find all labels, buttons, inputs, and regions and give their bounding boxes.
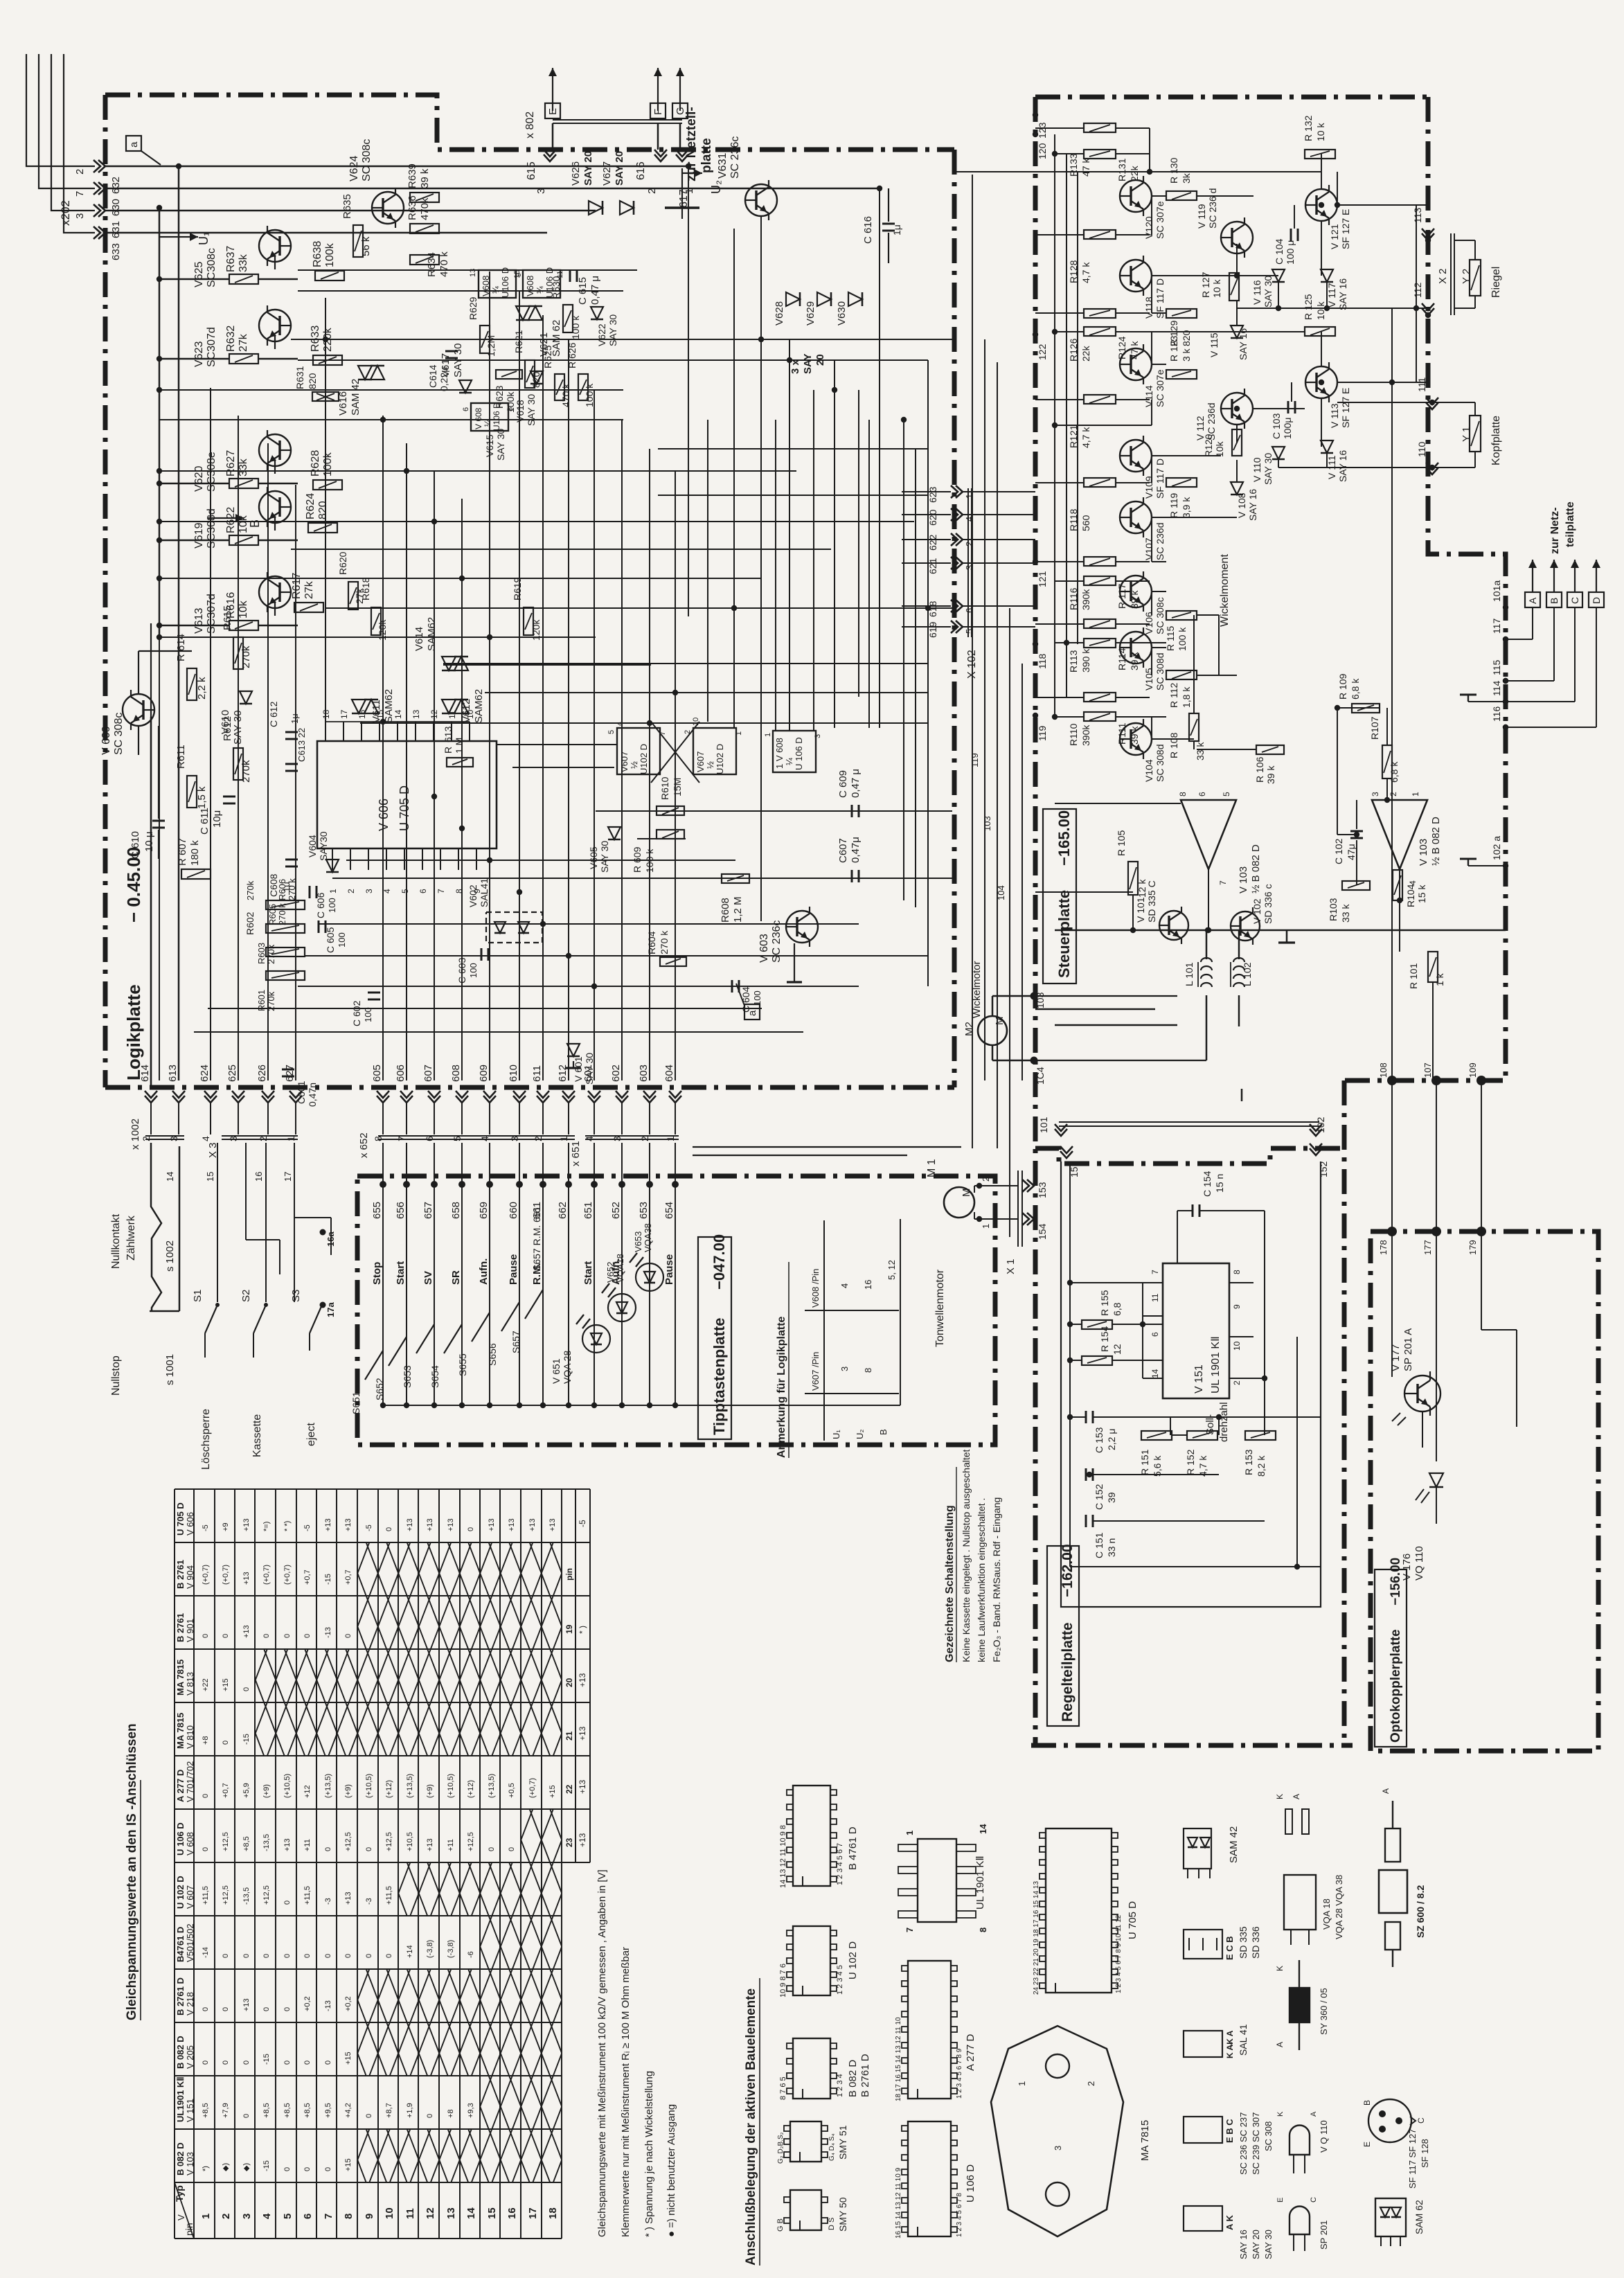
svg-text:1 k: 1 k xyxy=(1434,972,1445,986)
svg-text:2: 2 xyxy=(74,169,86,175)
transistor V105 xyxy=(1120,632,1152,664)
svg-text:3,9 k: 3,9 k xyxy=(1181,497,1192,518)
svg-text:3: 3 xyxy=(1371,792,1380,797)
svg-text:2: 2 xyxy=(981,1177,991,1182)
connector pin 620 xyxy=(956,508,963,521)
svg-text:613: 613 xyxy=(443,726,454,742)
svg-text:3k: 3k xyxy=(1181,172,1192,184)
svg-text:R635: R635 xyxy=(341,194,353,219)
svg-text:117: 117 xyxy=(1491,618,1502,634)
svg-text:SAY 30: SAY 30 xyxy=(607,314,618,346)
wire 613 vertical xyxy=(178,166,180,1080)
svg-text:V630: V630 xyxy=(836,301,848,326)
wire optokoppler inner xyxy=(1391,1231,1393,1377)
svg-text:R605: R605 xyxy=(267,904,278,925)
svg-text:SC308c: SC308c xyxy=(206,248,217,287)
package SAM 62 xyxy=(1375,2198,1406,2236)
svg-text:V 116: V 116 xyxy=(1251,280,1262,305)
resistor R125 xyxy=(1305,327,1335,336)
svg-text:x 651: x 651 xyxy=(570,1141,582,1166)
svg-text:0: 0 xyxy=(385,1954,393,1958)
wire 104 line xyxy=(1034,1060,1206,1061)
svg-text:R617: R617 xyxy=(291,573,303,599)
diode V111 xyxy=(1321,441,1333,453)
svg-text:656: 656 xyxy=(395,1202,407,1219)
svg-text:SV: SV xyxy=(422,1271,434,1285)
svg-text:S1: S1 xyxy=(192,1290,204,1302)
label Regelteilplatte xyxy=(1047,1546,1079,1726)
svg-text:a: a xyxy=(128,141,140,148)
ground V603 xyxy=(794,975,795,982)
svg-text:+13: +13 xyxy=(426,1838,434,1851)
resistor R605 xyxy=(266,947,305,956)
svg-text:Wickelmoment: Wickelmoment xyxy=(1219,554,1231,627)
resistor R618 xyxy=(371,607,381,635)
svg-text:8: 8 xyxy=(506,407,515,411)
svg-text:+13: +13 xyxy=(324,1518,332,1531)
table hatch row V501/502 xyxy=(480,1916,562,1969)
svg-text:2: 2 xyxy=(1389,792,1398,797)
connector pin 601 xyxy=(588,1096,600,1103)
resistor R112 xyxy=(1166,670,1197,679)
svg-text:0: 0 xyxy=(222,2007,230,2011)
resistor R624 xyxy=(308,523,337,533)
svg-text:10: 10 xyxy=(1232,1341,1242,1351)
svg-text:+8,5: +8,5 xyxy=(283,2103,292,2118)
svg-text:Gleichspannungswerte an den: Gleichspannungswerte an den IS -Anschlüs… xyxy=(125,1723,139,2020)
svg-text:R 112: R 112 xyxy=(1168,682,1179,708)
svg-text:14: 14 xyxy=(978,1824,988,1834)
svg-text:S654: S654 xyxy=(429,1365,440,1388)
svg-text:0: 0 xyxy=(202,1794,210,1798)
svg-text:658: 658 xyxy=(450,1202,462,1219)
ground steuer bus xyxy=(1286,930,1288,943)
svg-text:C 151: C 151 xyxy=(1094,1532,1105,1558)
connector pin 602 xyxy=(616,1096,628,1103)
svg-text:R636: R636 xyxy=(407,195,418,220)
svg-text:10 μ: 10 μ xyxy=(143,832,155,853)
svg-text:SC 307e: SC 307e xyxy=(1154,369,1166,407)
net U2 arrow xyxy=(682,172,702,174)
svg-text:V106: V106 xyxy=(1143,612,1154,634)
wire ttp to regelteil b xyxy=(693,1155,907,1156)
connector bar x652 xyxy=(378,1135,575,1137)
svg-text:R637: R637 xyxy=(225,246,237,272)
resistor R128 xyxy=(1084,230,1116,239)
svg-text:+13: +13 xyxy=(242,1998,251,2011)
wire steuer mid horizontals xyxy=(1150,171,1321,172)
svg-text:A: A xyxy=(1275,2042,1285,2047)
svg-text:120: 120 xyxy=(1037,143,1048,159)
svg-text:270 k: 270 k xyxy=(277,903,287,925)
svg-text:(+10,5): (+10,5) xyxy=(365,1774,373,1798)
svg-text:SAY 16: SAY 16 xyxy=(1247,489,1258,521)
frame regelteil inner xyxy=(1061,1162,1321,1607)
svg-text:27k: 27k xyxy=(238,333,249,352)
svg-text:UL 1901 KⅡ: UL 1901 KⅡ xyxy=(1210,1336,1222,1394)
svg-text:10: 10 xyxy=(384,2207,395,2219)
svg-text:+13: +13 xyxy=(508,1518,516,1531)
svg-text:4: 4 xyxy=(839,1283,850,1288)
svg-text:-13: -13 xyxy=(324,1627,332,1638)
svg-text:R602: R602 xyxy=(244,911,256,935)
svg-text:+11,5: +11,5 xyxy=(202,1886,210,1905)
diode V115 xyxy=(1231,326,1243,338)
svg-text:+7,9: +7,9 xyxy=(222,2103,230,2118)
connector pin 607 xyxy=(428,1096,440,1103)
svg-text:610: 610 xyxy=(508,1065,519,1082)
svg-text:0,22μ: 0,22μ xyxy=(438,367,449,391)
svg-text:UL 1901 KⅡ: UL 1901 KⅡ xyxy=(974,1856,986,1910)
svg-text:623: 623 xyxy=(927,486,938,503)
svg-text:* ) Spannung je nach Wickel: * ) Spannung je nach Wickelstellung xyxy=(643,2071,655,2237)
svg-text:0: 0 xyxy=(324,1847,332,1851)
package VQA LEDs small xyxy=(1285,1809,1292,1834)
svg-text:R 125: R 125 xyxy=(1303,294,1314,320)
svg-text:SC 308c: SC 308c xyxy=(113,713,125,755)
junction dots logik xyxy=(157,205,162,211)
table corner cell Typ pin xyxy=(175,2182,194,2239)
resistor R638 xyxy=(315,271,344,281)
svg-text:103: 103 xyxy=(1035,992,1046,1008)
svg-text:270 k: 270 k xyxy=(659,930,670,954)
svg-text:14 13 12 11 10 9 8: 14 13 12 11 10 9 8 xyxy=(779,1825,787,1888)
svg-text:(+9): (+9) xyxy=(262,1784,271,1798)
svg-text:3: 3 xyxy=(74,213,86,219)
svg-text:470k: 470k xyxy=(419,197,431,220)
svg-text:A 277 D: A 277 D xyxy=(175,1770,186,1802)
svg-text:0: 0 xyxy=(324,1954,332,1958)
svg-text:S2: S2 xyxy=(240,1290,252,1302)
svg-text:0,47μ: 0,47μ xyxy=(850,837,862,863)
table hatch row V 904 xyxy=(357,1542,562,1596)
resistor R612 xyxy=(233,748,243,780)
svg-text:V 901: V 901 xyxy=(185,1619,195,1642)
svg-text:SC 239 SC 307: SC 239 SC 307 xyxy=(1251,2112,1261,2175)
svg-text:V619: V619 xyxy=(193,523,205,549)
svg-text:-5: -5 xyxy=(202,1524,210,1531)
wire tipptasten verticals xyxy=(382,1143,384,1176)
svg-text:0: 0 xyxy=(365,1954,373,1958)
connector pin 110 xyxy=(1426,468,1438,474)
resistor R616 xyxy=(229,621,258,630)
resistor R627 xyxy=(229,479,258,488)
svg-text:VQA 18: VQA 18 xyxy=(1321,1898,1332,1930)
svg-text:C 153: C 153 xyxy=(1094,1427,1105,1453)
svg-text:U₁: U₁ xyxy=(831,1430,841,1439)
transistor V121 xyxy=(1305,189,1337,221)
svg-text:A: A xyxy=(1292,1794,1301,1799)
resistor R110 xyxy=(1084,693,1116,702)
table hatch row V 205 xyxy=(357,2022,562,2076)
svg-text:S653: S653 xyxy=(402,1365,413,1388)
svg-text:0: 0 xyxy=(365,2114,373,2118)
svg-text:Typ: Typ xyxy=(174,2185,185,2202)
capacitor C612 xyxy=(285,731,298,733)
svg-text:SD 335: SD 335 xyxy=(1238,1926,1249,1959)
svg-text:+15: +15 xyxy=(222,1678,230,1691)
svg-text:470 k: 470 k xyxy=(560,383,571,407)
svg-text:SAY 16: SAY 16 xyxy=(1337,450,1348,482)
svg-text:R 109: R 109 xyxy=(1337,673,1348,700)
svg-text:654: 654 xyxy=(663,1202,675,1219)
svg-text:0: 0 xyxy=(385,1527,393,1531)
gate V608 quarter U106D b xyxy=(523,270,560,298)
connector pin 617 xyxy=(676,154,688,161)
svg-text:6,8 k: 6,8 k xyxy=(1389,761,1400,783)
svg-text:Keine Kassette eingelegt . Nul: Keine Kassette eingelegt . Nullstop ausg… xyxy=(961,1449,972,1662)
transistor V177 SP201A xyxy=(1404,1376,1440,1412)
svg-text:5,6 k: 5,6 k xyxy=(1152,1455,1163,1477)
svg-text:0: 0 xyxy=(283,2007,292,2011)
svg-text:626: 626 xyxy=(256,1065,268,1082)
svg-text:655: 655 xyxy=(371,1202,383,1219)
package SF 117 TO xyxy=(1368,2099,1411,2142)
resistor R615 xyxy=(233,637,243,669)
svg-text:(+0,7): (+0,7) xyxy=(283,1565,292,1585)
diode V610 xyxy=(240,691,252,704)
svg-text:R611: R611 xyxy=(175,745,187,769)
svg-text:Steuerplatte: Steuerplatte xyxy=(1055,890,1073,978)
wire bus logik horizontals xyxy=(298,269,637,271)
transistor V625 xyxy=(259,230,291,262)
svg-text:K: K xyxy=(1276,2111,1285,2117)
svg-text:6: 6 xyxy=(418,889,428,893)
svg-text:C 605: C 605 xyxy=(325,927,336,953)
junction dots steuer xyxy=(1052,151,1058,157)
svg-text:0: 0 xyxy=(202,1847,210,1851)
svg-text:+12,5: +12,5 xyxy=(467,1832,475,1851)
svg-text:+11: +11 xyxy=(447,1839,455,1851)
svg-text:603: 603 xyxy=(638,1065,650,1082)
svg-text:0: 0 xyxy=(262,2007,271,2011)
gate V607 half U102D b xyxy=(693,728,736,774)
svg-text:R628: R628 xyxy=(310,450,321,477)
transistor V609 xyxy=(123,694,154,726)
svg-text:V 813: V 813 xyxy=(185,1672,195,1696)
svg-text:A K: A K xyxy=(1224,2214,1235,2230)
svg-text:SC 236 d: SC 236 d xyxy=(1207,188,1218,229)
net arrow C xyxy=(1574,560,1576,592)
transistor V631 xyxy=(745,184,777,216)
svg-text:657: 657 xyxy=(422,1202,434,1219)
svg-text:Tipptastenplatte: Tipptastenplatte xyxy=(711,1317,728,1435)
svg-text:E C B: E C B xyxy=(1224,1936,1235,1960)
svg-text:U106 D: U106 D xyxy=(500,267,510,298)
svg-text:Zählwerk: Zählwerk xyxy=(125,1215,137,1261)
svg-text:SC 308: SC 308 xyxy=(1263,2121,1274,2151)
svg-text:16: 16 xyxy=(863,1280,873,1290)
svg-text:B: B xyxy=(1549,598,1560,604)
svg-text:6: 6 xyxy=(1197,792,1207,797)
svg-text:Aufn.: Aufn. xyxy=(478,1258,490,1285)
svg-text:1 2 3 4 5: 1 2 3 4 5 xyxy=(836,1965,844,1995)
transistor V101 xyxy=(1159,911,1188,940)
svg-text:16: 16 xyxy=(506,2207,518,2219)
package SD 335 336 xyxy=(1184,1930,1222,1959)
IC package B082 D B2761 D xyxy=(793,2038,830,2099)
diode V116 xyxy=(1272,269,1285,282)
svg-text:(+0,7): (+0,7) xyxy=(202,1565,210,1585)
svg-text:V653: V653 xyxy=(633,1231,643,1252)
svg-text:15 k: 15 k xyxy=(1416,884,1427,903)
svg-text:3: 3 xyxy=(241,2214,253,2219)
svg-text:630: 630 xyxy=(110,199,122,216)
svg-text:C613 22: C613 22 xyxy=(296,728,307,762)
svg-text:S655: S655 xyxy=(457,1353,468,1376)
label Logikplatte xyxy=(150,717,152,1086)
svg-text:33 n: 33 n xyxy=(1106,1538,1117,1557)
svg-text:M2: M2 xyxy=(963,1022,975,1036)
wire stage row xyxy=(258,540,298,542)
svg-text:616: 616 xyxy=(635,161,647,180)
svg-text:3 k: 3 k xyxy=(1181,348,1192,362)
svg-text:662: 662 xyxy=(557,1202,569,1219)
diode V604 xyxy=(326,860,339,872)
board outline Tipptastenplatte xyxy=(357,1176,995,1445)
connector pin 619 xyxy=(956,621,963,633)
svg-text:0: 0 xyxy=(426,2114,434,2118)
svg-text:20: 20 xyxy=(564,1678,574,1687)
transistor V120 xyxy=(1120,180,1152,212)
svg-text:+13: +13 xyxy=(548,1518,557,1531)
svg-text:V611: V611 xyxy=(371,700,382,723)
svg-text:B: B xyxy=(878,1429,889,1435)
svg-text:33k: 33k xyxy=(238,458,249,477)
svg-text:100: 100 xyxy=(468,963,479,978)
table hatch row V 103 xyxy=(357,2129,562,2182)
svg-text:R 152: R 152 xyxy=(1185,1449,1196,1475)
svg-text:2: 2 xyxy=(346,889,356,893)
transistor V104 xyxy=(1120,723,1152,755)
svg-text:R630: R630 xyxy=(551,276,562,299)
svg-text:100 k: 100 k xyxy=(570,315,581,339)
svg-text:6,8 k: 6,8 k xyxy=(1350,678,1361,700)
svg-text:19: 19 xyxy=(564,1624,574,1634)
connector pin 623 xyxy=(956,486,963,498)
connector pin 604 xyxy=(669,1096,681,1103)
svg-text:618: 618 xyxy=(927,600,938,617)
svg-text:7: 7 xyxy=(74,191,86,197)
connector X202 xyxy=(26,54,95,166)
svg-text:V629: V629 xyxy=(805,301,817,326)
capacitor C608 xyxy=(285,859,298,861)
svg-text:4,7 k: 4,7 k xyxy=(1080,427,1091,448)
svg-text:V 101: V 101 xyxy=(1135,897,1146,923)
resistor R628 xyxy=(313,480,342,490)
svg-text:eject: eject xyxy=(305,1423,317,1446)
svg-text:102: 102 xyxy=(1315,1116,1326,1133)
table grid xyxy=(175,1488,590,1490)
svg-text:¼: ¼ xyxy=(535,286,545,294)
svg-text:R618: R618 xyxy=(360,577,371,600)
svg-text:1,8 k: 1,8 k xyxy=(1181,686,1192,708)
svg-text:+4,2: +4,2 xyxy=(344,2103,353,2118)
node 16a xyxy=(320,1229,326,1236)
connector bar x651 xyxy=(585,1135,679,1137)
svg-text:110: 110 xyxy=(1416,441,1427,457)
switch S654 xyxy=(444,1324,462,1353)
svg-text:V 119: V 119 xyxy=(1196,204,1207,229)
svg-text:0: 0 xyxy=(344,1634,353,1638)
svg-text:-13,5: -13,5 xyxy=(242,1887,251,1905)
svg-text:SMY 50: SMY 50 xyxy=(837,2197,848,2232)
transistor V613 xyxy=(259,576,291,608)
svg-text:633: 633 xyxy=(110,243,122,260)
svg-text:+13: +13 xyxy=(344,1518,353,1531)
svg-text:drehzahl: drehzahl xyxy=(1218,1402,1230,1442)
package SY 360/05 xyxy=(1290,1988,1310,2022)
svg-text:X 1: X 1 xyxy=(1005,1258,1017,1274)
svg-text:390 k: 390 k xyxy=(1080,648,1091,673)
transistor V619 xyxy=(259,491,291,523)
svg-text:U 705 D: U 705 D xyxy=(1127,1901,1139,1939)
svg-text:R103: R103 xyxy=(1328,898,1339,921)
svg-text:MA 7815: MA 7815 xyxy=(175,1713,186,1749)
connector pin 627 xyxy=(289,1096,302,1103)
svg-text:4: 4 xyxy=(200,1136,211,1141)
svg-text:601: 601 xyxy=(582,1065,594,1082)
svg-text:−047.00: −047.00 xyxy=(711,1234,728,1290)
resistor R119 xyxy=(1166,478,1197,487)
wire bus logik vertical drops extra xyxy=(707,420,708,722)
svg-text:+11: +11 xyxy=(303,1839,312,1851)
svg-text:S656: S656 xyxy=(487,1343,498,1366)
op-amp V103 half B082D xyxy=(1181,800,1236,869)
svg-text:0: 0 xyxy=(222,1634,230,1638)
wire X102 feeds xyxy=(963,491,1035,492)
svg-text:R634: R634 xyxy=(426,252,438,277)
svg-text:V624: V624 xyxy=(348,156,360,181)
svg-text:V 177: V 177 xyxy=(1390,1344,1402,1371)
svg-text:13: 13 xyxy=(411,709,421,719)
relay Y2 xyxy=(1454,240,1475,241)
triac V612 SAM62 xyxy=(442,700,456,713)
net arrow D xyxy=(1596,560,1597,592)
package MA 7815 TO-3 xyxy=(991,2026,1123,2236)
label Optokopplerplatte xyxy=(1375,1569,1407,1747)
svg-text:103: 103 xyxy=(982,816,992,831)
svg-text:SAM 42: SAM 42 xyxy=(350,379,362,416)
svg-text:x 652: x 652 xyxy=(358,1132,370,1158)
svg-text:B: B xyxy=(1362,2100,1372,2106)
resistor R103 xyxy=(1342,881,1370,890)
svg-text:7: 7 xyxy=(904,1928,915,1932)
svg-text:Start: Start xyxy=(582,1261,594,1285)
svg-text:3: 3 xyxy=(814,734,822,738)
wire E down xyxy=(552,123,554,150)
svg-text:R608: R608 xyxy=(720,898,731,923)
svg-text:8: 8 xyxy=(1178,792,1188,797)
svg-text:+12,5: +12,5 xyxy=(344,1832,353,1851)
label Steuerplatte xyxy=(1043,809,1076,984)
svg-text:Pause: Pause xyxy=(508,1254,519,1285)
arrow G to Netzteilplatte xyxy=(679,68,681,111)
svg-text:SF 127 E: SF 127 E xyxy=(1340,388,1351,428)
svg-text:632: 632 xyxy=(110,177,122,194)
capacitor C607 xyxy=(851,870,853,882)
svg-text:0: 0 xyxy=(283,1901,292,1905)
svg-text:47 k: 47 k xyxy=(1080,158,1091,177)
wire optokoppler verticals xyxy=(1391,1080,1393,1231)
wire X202 row 1 xyxy=(105,166,688,168)
svg-text:16: 16 xyxy=(253,1172,264,1182)
svg-text:5: 5 xyxy=(1222,792,1231,797)
resistor R132 xyxy=(1305,150,1335,159)
resistor R107 xyxy=(1382,745,1392,778)
package VQ 110 xyxy=(1290,2126,1310,2155)
svg-text:C: C xyxy=(1569,597,1580,604)
